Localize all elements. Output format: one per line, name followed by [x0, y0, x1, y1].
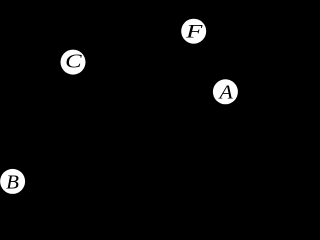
- svg-text:F: F: [185, 21, 203, 43]
- svg-text:B: B: [6, 172, 19, 194]
- svg-text:C: C: [65, 50, 83, 72]
- svg-text:A: A: [217, 80, 233, 103]
